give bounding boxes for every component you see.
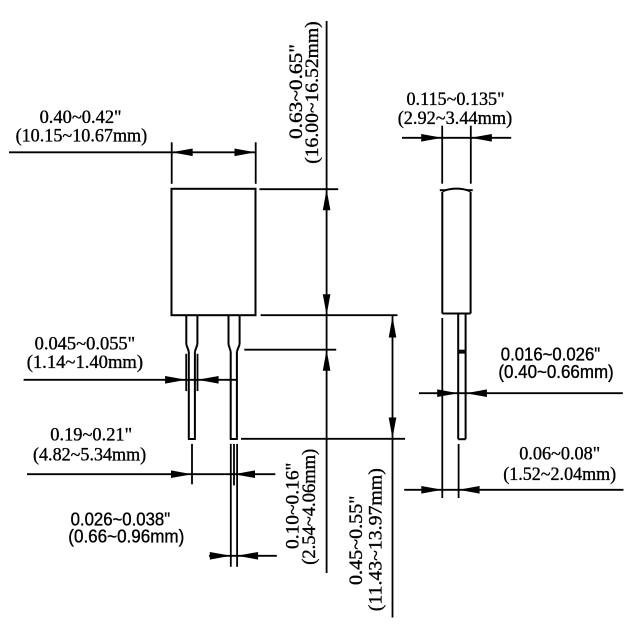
svg-text:(0.66~0.96mm): (0.66~0.96mm) (68, 527, 184, 547)
svg-text:(2.54~4.06mm): (2.54~4.06mm) (299, 449, 320, 565)
svg-text:(10.15~10.67mm): (10.15~10.67mm) (16, 126, 148, 147)
svg-text:(11.43~13.97mm): (11.43~13.97mm) (366, 468, 387, 611)
svg-text:(1.14~1.40mm): (1.14~1.40mm) (27, 352, 143, 373)
svg-text:(16.00~16.52mm): (16.00~16.52mm) (302, 21, 323, 164)
svg-text:(1.52~2.04mm): (1.52~2.04mm) (503, 464, 616, 485)
svg-text:0.115~0.135": 0.115~0.135" (407, 89, 505, 110)
svg-text:0.19~0.21": 0.19~0.21" (50, 425, 132, 446)
svg-text:(4.82~5.34mm): (4.82~5.34mm) (33, 444, 146, 465)
svg-text:(0.40~0.66mm): (0.40~0.66mm) (498, 362, 613, 382)
svg-text:0.45~0.55": 0.45~0.55" (346, 496, 367, 586)
svg-text:(2.92~3.44mm): (2.92~3.44mm) (398, 108, 513, 129)
svg-text:0.06~0.08": 0.06~0.08" (519, 443, 600, 464)
